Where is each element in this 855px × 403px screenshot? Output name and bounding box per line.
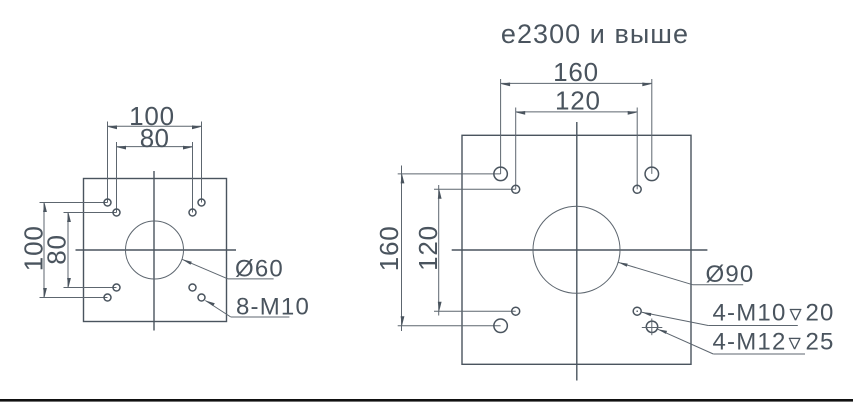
dim 80 top: dimension line xyxy=(117,146,193,148)
plate B hole top-right outer xyxy=(645,167,659,181)
dim 160 top: extension lines xyxy=(501,79,652,174)
dim 120 top: arrows xyxy=(516,111,638,115)
plate B hole bottom-right outer crosshair xyxy=(642,319,663,336)
plate B hole top-left outer xyxy=(494,167,508,181)
svg-text:е2300 и выше: е2300 и выше xyxy=(501,19,689,49)
dim 160 top: arrows xyxy=(501,83,652,87)
dim 100 top: dimension line xyxy=(108,125,202,127)
plate A hole top-right inner xyxy=(189,209,196,216)
svg-text:Ø60: Ø60 xyxy=(235,256,284,283)
plate A hole top-left inner xyxy=(113,209,120,216)
dim 160 top: dimension line xyxy=(501,82,652,84)
label 4-M12 depth symbol xyxy=(789,338,801,349)
dim 160 left: extension lines xyxy=(398,174,501,326)
plate A hole top-left outer xyxy=(104,199,111,206)
plate A hole bottom-right inner xyxy=(189,284,196,291)
bottom rule xyxy=(0,399,853,402)
svg-text:160: 160 xyxy=(374,226,404,272)
dim 80 left: arrows xyxy=(67,213,71,288)
circle D90 xyxy=(533,206,620,293)
plate B hole top-left inner xyxy=(512,185,520,193)
plate B hole bottom-right inner center dot xyxy=(636,310,638,312)
dim 120 left: extension lines xyxy=(434,189,516,311)
plate A vertical centerline xyxy=(153,171,155,331)
svg-text:120: 120 xyxy=(413,225,443,271)
plate A hole top-right outer xyxy=(198,199,205,206)
svg-text:8-M10: 8-M10 xyxy=(236,294,310,321)
svg-text:4-M12: 4-M12 xyxy=(713,328,787,355)
dim 100 left: arrows xyxy=(43,203,47,298)
plate A hole bottom-left outer xyxy=(104,294,111,301)
svg-text:Ø90: Ø90 xyxy=(706,261,755,288)
leader D60 xyxy=(182,259,274,279)
plate A hole bottom-left inner xyxy=(113,284,120,291)
plate B hole bottom-left inner xyxy=(512,307,520,315)
plate B hole bottom-left outer xyxy=(494,319,508,333)
dim 80 left: extension lines xyxy=(64,213,117,288)
svg-text:160: 160 xyxy=(553,57,599,87)
plate B outline xyxy=(462,135,691,364)
dim 80 top: extension lines xyxy=(117,142,193,213)
leader D90 xyxy=(618,262,743,284)
dim 160 left: arrows xyxy=(401,174,405,326)
dim 120 left: dimension line xyxy=(438,185,440,316)
plate A horizontal centerline xyxy=(76,249,237,251)
plate B hole bottom-right outer xyxy=(646,321,657,332)
plate A outline xyxy=(84,179,227,322)
dim 100 left: dimension line xyxy=(43,203,45,298)
plate B horizontal centerline xyxy=(452,249,708,251)
svg-text:80: 80 xyxy=(42,234,72,265)
svg-text:80: 80 xyxy=(140,123,170,153)
plate B hole bottom-right inner xyxy=(633,307,641,315)
label 4-M10 depth symbol xyxy=(790,310,802,321)
dim 120 left: arrows xyxy=(438,189,442,311)
svg-text:4-M10: 4-M10 xyxy=(713,299,787,326)
plate A hole bottom-right outer xyxy=(198,294,205,301)
dim 160 left: dimension line xyxy=(401,166,403,332)
dim 100 top: extension lines xyxy=(108,122,202,203)
leader 4-M12 xyxy=(658,329,805,354)
dim 120 top: extension lines xyxy=(516,108,638,190)
svg-text:25: 25 xyxy=(806,328,835,355)
dim 80 left: dimension line xyxy=(67,213,69,288)
dim 80 top: arrows xyxy=(117,146,193,150)
dim 100 top: arrows xyxy=(108,125,202,129)
dim 120 top: dimension line xyxy=(516,111,638,113)
leader 8-M10 xyxy=(205,301,289,318)
svg-text:120: 120 xyxy=(555,86,601,116)
plate B vertical centerline xyxy=(576,122,578,381)
plate B hole top-right inner xyxy=(633,185,641,193)
circle D60 xyxy=(126,221,184,279)
svg-text:20: 20 xyxy=(806,299,835,326)
leader 4-M10 xyxy=(642,312,798,325)
dim 100 left: extension lines xyxy=(40,203,108,298)
